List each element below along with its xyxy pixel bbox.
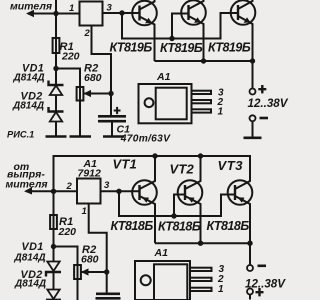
wire: riser to VT2 base bbox=[172, 14, 189, 39]
label VD2 (bottom) bbox=[21, 269, 43, 281]
node dot pin3 junction (118,191.3) bbox=[116, 189, 121, 194]
svg-text:КТ818Б: КТ818Б bbox=[111, 219, 154, 233]
svg-text:7912: 7912 bbox=[78, 168, 102, 180]
node dot bus output (252.5,61) bbox=[250, 58, 255, 63]
label KT819B #3 bbox=[208, 40, 251, 54]
label 680 (bottom) bbox=[81, 254, 99, 266]
svg-text:2: 2 bbox=[84, 28, 91, 39]
label KT818B #1 bbox=[111, 219, 154, 233]
IC package A1 drawing (bottom) bbox=[135, 261, 212, 300]
label VT3 (bottom) bbox=[218, 158, 244, 173]
terminal + (top output) bbox=[250, 89, 256, 95]
svg-text:Д814Д: Д814Д bbox=[14, 252, 46, 263]
zener VD2 (D814D, top) bbox=[49, 107, 64, 137]
zener VD2 (D814D, bottom) bbox=[46, 290, 61, 300]
label VD1 (bottom) bbox=[22, 241, 44, 253]
wire: node to regulator pin 2 (bottom) bbox=[54, 190, 78, 192]
label 680 (top) bbox=[84, 72, 102, 84]
label R2 (bottom) bbox=[82, 244, 96, 256]
transistor VT1 (KT819B, top) bbox=[132, 0, 157, 61]
wire: bus to + terminal (top) bbox=[252, 61, 254, 89]
svg-text:VT2: VT2 bbox=[170, 161, 195, 176]
ground bar (R2, top) bbox=[70, 135, 92, 138]
wire: base link to VT3 riser bbox=[172, 13, 238, 39]
node dot bus VT2 (200.5,243.2) bbox=[198, 241, 203, 246]
label A1 (regulator, bottom) bbox=[83, 158, 98, 170]
label D814D (VD1, top) bbox=[13, 73, 45, 84]
node dot (56,68.5) bbox=[53, 66, 58, 71]
label - (top output) bbox=[260, 117, 269, 120]
transistor VT2 (KT819B, top) bbox=[181, 0, 206, 61]
svg-text:мителя: мителя bbox=[6, 179, 48, 191]
pin 3 label (bottom regulator) bbox=[104, 180, 110, 191]
label 7912 (regulator, bottom) bbox=[78, 168, 102, 180]
pin label 3 (package, bottom) bbox=[219, 264, 225, 275]
svg-text:680: 680 bbox=[84, 72, 102, 84]
op-amp/regulator A1 box (bottom, 7912) bbox=[77, 179, 101, 204]
svg-text:КТ819Б: КТ819Б bbox=[110, 40, 153, 54]
wire: node to regulator pin 1 bbox=[56, 13, 80, 15]
node: от выпрямителя (input label, bottom) bbox=[6, 161, 48, 191]
node: от выпрямителя (input label, top) bbox=[10, 1, 52, 13]
label KT818B #2 bbox=[158, 219, 201, 233]
wire: node to R2 (top) bbox=[56, 69, 80, 88]
pin label 1 (package, bottom) bbox=[218, 284, 224, 295]
label R2 (top) bbox=[84, 63, 98, 75]
node dot bus output (250,243.2) bbox=[247, 241, 252, 246]
svg-text:220: 220 bbox=[61, 51, 80, 63]
svg-text:VT3: VT3 bbox=[218, 158, 244, 173]
label KT819B #2 bbox=[160, 41, 203, 55]
wire: regulator pin 1 to C1 column (bottom) bbox=[89, 204, 107, 294]
node junction dot (53.5,191.3) bbox=[51, 189, 56, 194]
label VD2 (top) bbox=[21, 91, 43, 103]
svg-text:Д814Д: Д814Д bbox=[12, 101, 44, 112]
IC package A1 drawing (top) bbox=[139, 84, 212, 123]
label A1 (package, top) bbox=[156, 71, 171, 83]
label 220 (top) bbox=[61, 51, 80, 63]
capacitor C1 (bottom) bbox=[96, 294, 121, 299]
pin label 1 (package, top) bbox=[218, 107, 224, 118]
svg-text:КТ819Б: КТ819Б bbox=[208, 40, 251, 54]
svg-text:A1: A1 bbox=[154, 247, 169, 259]
wire: regulator pin 3 to VT1 base (bottom) bbox=[101, 190, 140, 192]
label 220 (bottom) bbox=[58, 226, 77, 238]
label - (bottom output) bbox=[258, 264, 267, 267]
node dot (53.5,246.5) bbox=[51, 244, 56, 249]
resistor R1 (220, bottom) bbox=[50, 191, 57, 262]
label 12..38V (top) bbox=[248, 97, 289, 110]
svg-text:РИС.1: РИС.1 bbox=[7, 130, 34, 140]
transistor VT3 (KT819B, top) bbox=[231, 0, 256, 61]
wire: below + terminal (bottom) bbox=[249, 295, 251, 300]
capacitor C1 (470u/63V, top) bbox=[98, 107, 126, 137]
pin 2 label (bottom regulator) bbox=[66, 181, 73, 192]
label D814D (VD1, bottom) bbox=[14, 252, 46, 263]
svg-text:КТ819Б: КТ819Б bbox=[160, 41, 203, 55]
svg-text:A1: A1 bbox=[156, 71, 171, 83]
wire: base link down from pin3 junction bbox=[122, 13, 172, 39]
label RIS.1 bbox=[7, 130, 34, 140]
wire: input arrow to node at x56 (top) bbox=[26, 10, 56, 17]
zener VD1 (D814D, bottom) bbox=[46, 262, 61, 290]
terminal + (bottom output) bbox=[247, 289, 253, 295]
svg-text:470m/63V: 470m/63V bbox=[120, 133, 171, 144]
node dot base link (174,216) bbox=[171, 213, 176, 218]
wire: regulator pin 2 to C1 column bbox=[92, 26, 112, 117]
svg-text:1: 1 bbox=[69, 3, 74, 14]
label R1 (top) bbox=[60, 41, 74, 53]
wire: emitter bus (top) bbox=[155, 60, 253, 62]
potentiometer R2 (680, bottom) bbox=[74, 265, 107, 300]
label KT818B #3 bbox=[207, 219, 250, 233]
terminal - (bottom output) bbox=[247, 265, 253, 271]
potentiometer R2 (680, top) bbox=[77, 87, 111, 137]
wire: bus to - terminal (bottom) bbox=[249, 243, 251, 265]
node dot bus VT2 (203.5,61) bbox=[201, 58, 206, 63]
ground bar (zener chain, top) bbox=[46, 135, 67, 138]
label D814D (VD2, bottom) bbox=[14, 278, 46, 289]
wire: riser to VT2 base (bottom) bbox=[174, 195, 185, 217]
wire: base link to VT3 riser (bottom) bbox=[174, 195, 235, 217]
node dot wiper junction (111,93.5) bbox=[108, 91, 113, 96]
svg-text:12..38V: 12..38V bbox=[248, 97, 289, 110]
svg-text:680: 680 bbox=[81, 254, 99, 266]
svg-text:Д814Д: Д814Д bbox=[13, 73, 45, 84]
wire: emitter bus (bottom) bbox=[155, 242, 250, 244]
pin label 3 (package, top) bbox=[218, 88, 224, 99]
label C1 (top) bbox=[117, 124, 131, 136]
svg-text:КТ818Б: КТ818Б bbox=[158, 219, 201, 233]
label VT1 (bottom) bbox=[113, 156, 137, 171]
transistor VT1 (KT818B, bottom) bbox=[132, 156, 157, 243]
node dot wiper junction (107.5,272) bbox=[104, 269, 109, 274]
node dot rail VT2 (200.5,156) bbox=[198, 153, 203, 158]
label KT819B #1 bbox=[110, 40, 153, 54]
op-amp/regulator A1 box (top, 7812) bbox=[80, 2, 103, 26]
wire: input arrow (bottom) bbox=[24, 187, 54, 194]
svg-text:1: 1 bbox=[82, 206, 87, 217]
transistor VT2 (KT818B, bottom) bbox=[178, 156, 203, 243]
svg-text:1: 1 bbox=[218, 107, 224, 118]
svg-text:3: 3 bbox=[107, 3, 113, 14]
wire: raw supply riser above node (top) bbox=[55, 0, 57, 14]
label 12..38V (bottom) bbox=[245, 277, 286, 290]
svg-text:мителя: мителя bbox=[10, 1, 52, 13]
svg-text:220: 220 bbox=[58, 226, 77, 238]
label D814D (VD2, top) bbox=[12, 101, 44, 112]
pin 1 label (top regulator) bbox=[69, 3, 74, 14]
wire: raw rail (bottom) bbox=[54, 156, 251, 191]
svg-text:КТ818Б: КТ818Б bbox=[207, 219, 250, 233]
ground bar (output, top) bbox=[244, 137, 262, 140]
pin label 2 (package, top) bbox=[217, 97, 224, 108]
label VD1 (top) bbox=[22, 63, 44, 75]
label + (bottom output) bbox=[255, 288, 263, 296]
node dot rail VT1 (155,156) bbox=[152, 153, 157, 158]
label A1 (package, bottom) bbox=[154, 247, 169, 259]
resistor R1 (220, top) bbox=[53, 14, 60, 86]
wire: node to R2 (bottom) bbox=[54, 247, 78, 266]
node dot base link (172,38.5) bbox=[169, 36, 174, 41]
transistor VT3 (KT818B, bottom) bbox=[228, 156, 253, 243]
terminal - (top output) bbox=[250, 115, 256, 121]
svg-text:1: 1 bbox=[218, 284, 224, 295]
node junction dot (56,13.5) bbox=[53, 11, 58, 16]
svg-text:Д814Д: Д814Д bbox=[14, 278, 46, 289]
svg-text:VD1: VD1 bbox=[22, 241, 44, 253]
wire: base link down (bottom) bbox=[119, 191, 174, 216]
label + (top output) bbox=[258, 85, 266, 93]
pin 1 label (bottom regulator) bbox=[82, 206, 87, 217]
zener VD1 (D814D, top) bbox=[49, 81, 64, 112]
label 470m/63V (top) bbox=[120, 133, 171, 144]
svg-text:VT1: VT1 bbox=[113, 156, 137, 171]
pin 2 label (top regulator) bbox=[84, 28, 91, 39]
label VT2 (bottom) bbox=[170, 161, 195, 176]
label R1 (bottom) bbox=[59, 216, 73, 228]
wire: regulator pin 3 to VT1 base bbox=[103, 12, 140, 14]
ground bar (C1, top) bbox=[103, 135, 124, 138]
pin 3 label (top regulator) bbox=[107, 3, 113, 14]
svg-text:3: 3 bbox=[104, 180, 110, 191]
node dot pin3 junction (122,13) bbox=[119, 10, 124, 15]
svg-text:2: 2 bbox=[66, 181, 73, 192]
pin label 2 (package, bottom) bbox=[217, 274, 224, 285]
wire: - terminal to ground bar (top) bbox=[252, 121, 254, 137]
